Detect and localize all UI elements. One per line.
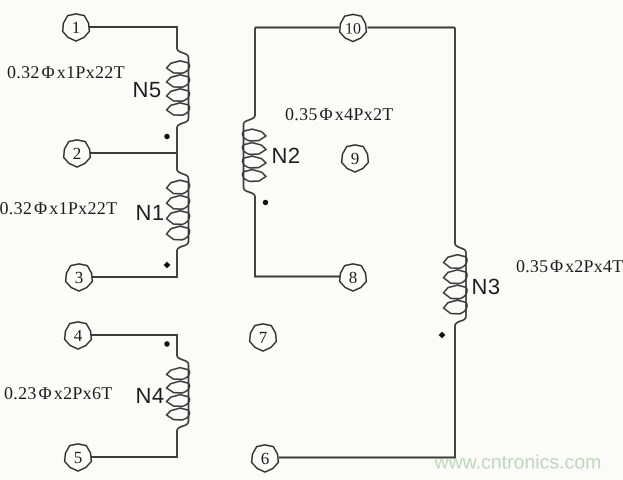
wire N4 bottom to terminal5 bbox=[92, 430, 178, 457]
phase dot N1 bbox=[164, 262, 171, 269]
wire node2 to N1 top bbox=[176, 153, 178, 170]
svg-text:N2: N2 bbox=[272, 143, 301, 168]
phase dot N3 bbox=[439, 332, 446, 339]
terminal 5 bbox=[65, 444, 92, 471]
svg-text:N1: N1 bbox=[136, 200, 165, 225]
phase dot N4 bbox=[164, 341, 169, 346]
terminal 9 bbox=[342, 145, 369, 172]
svg-text:0.35 Φ x2Px4T: 0.35 Φ x2Px4T bbox=[516, 256, 623, 276]
terminal 1 bbox=[63, 14, 90, 41]
terminal 10 bbox=[340, 14, 367, 41]
inductor N2 bbox=[243, 116, 266, 196]
phase dot N5 bbox=[164, 134, 169, 139]
wire terminal4 to N4 top bbox=[92, 335, 178, 356]
inductor N4 bbox=[167, 356, 190, 430]
terminal 3 bbox=[66, 264, 93, 291]
inductor N1 bbox=[167, 170, 190, 250]
terminal 8 bbox=[340, 264, 367, 291]
wire N2 bottom to terminal8 bbox=[255, 196, 340, 277]
svg-text:0.32 Φ x1Px22T: 0.32 Φ x1Px22T bbox=[0, 198, 117, 218]
wire terminal1 to N5 bbox=[90, 27, 178, 49]
inductor N3 bbox=[444, 244, 467, 325]
terminal 7 bbox=[250, 324, 277, 351]
terminal 4 bbox=[65, 322, 92, 349]
wire N1 bottom to terminal3 bbox=[93, 250, 178, 277]
svg-text:3: 3 bbox=[75, 268, 84, 287]
svg-text:4: 4 bbox=[74, 326, 83, 345]
wire N5 bottom to node2 bbox=[176, 127, 178, 153]
wire left branch down bbox=[254, 28, 256, 117]
svg-text:0.23 Φ x2Px6T: 0.23 Φ x2Px6T bbox=[4, 383, 113, 403]
inductor N5 bbox=[167, 49, 190, 127]
svg-text:N5: N5 bbox=[133, 77, 162, 102]
terminal 6 bbox=[252, 445, 279, 472]
wire top rail right bbox=[368, 27, 456, 29]
wire top rail left bbox=[255, 27, 339, 29]
svg-text:www.cntronics.com: www.cntronics.com bbox=[434, 452, 602, 474]
wire N3 bottom to terminal6 bbox=[279, 325, 455, 458]
svg-text:2: 2 bbox=[73, 144, 82, 163]
svg-text:0.35 Φ x4Px2T: 0.35 Φ x4Px2T bbox=[285, 104, 394, 124]
svg-text:5: 5 bbox=[74, 448, 83, 467]
terminal 2 bbox=[64, 140, 91, 167]
wire terminal2 to node bbox=[91, 152, 178, 154]
svg-text:6: 6 bbox=[261, 449, 270, 468]
phase dot N2 bbox=[263, 200, 268, 205]
svg-text:0.32 Φ x1Px22T: 0.32 Φ x1Px22T bbox=[7, 62, 125, 82]
wire right branch down bbox=[454, 28, 456, 245]
svg-text:1: 1 bbox=[72, 18, 81, 37]
svg-text:8: 8 bbox=[349, 268, 358, 287]
svg-text:10: 10 bbox=[345, 21, 361, 38]
svg-text:9: 9 bbox=[351, 149, 360, 168]
svg-text:N3: N3 bbox=[472, 274, 501, 299]
svg-text:N4: N4 bbox=[136, 383, 165, 408]
svg-text:7: 7 bbox=[259, 328, 268, 347]
